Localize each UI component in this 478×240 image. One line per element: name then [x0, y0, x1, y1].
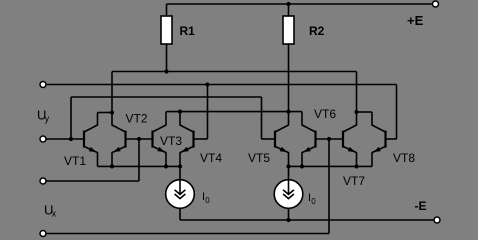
node R2 top rail [286, 2, 290, 6]
label R1 [180, 24, 196, 38]
label -E [415, 199, 427, 213]
label VT6 [314, 107, 336, 121]
node VT2 emitter [110, 164, 114, 168]
node VT6 VT7 bases [327, 137, 331, 141]
wire VT6 VT7 base tie [316, 138, 344, 140]
label R2 [309, 24, 325, 38]
label I01 [202, 191, 210, 205]
wire right emitter bus [287, 165, 373, 167]
wire Ux lower input [46, 139, 329, 234]
node VT1 base branch [69, 137, 73, 141]
svg-text:VT2: VT2 [126, 112, 148, 126]
wire +E top rail [167, 3, 436, 5]
svg-text:R2: R2 [309, 24, 325, 38]
transistor VT1 [84, 113, 98, 167]
wire collector bus (R2 net VT3 VT4 VT5 VT6) [166, 111, 302, 113]
label VT2 [126, 112, 148, 126]
resistor R2 [283, 4, 294, 112]
wire VT1 collector elbow [98, 112, 113, 114]
node R2 to collector bus [286, 110, 290, 114]
terminal Uy lower [40, 136, 46, 142]
current source I02 [274, 166, 303, 220]
node VT7 emitter [354, 164, 358, 168]
wire VT5 base [262, 138, 276, 140]
wire Ux upper input [46, 139, 139, 181]
node VT2 VT3 bases [137, 137, 141, 141]
wire VT2 VT3 base tie [126, 138, 153, 140]
label +E [407, 13, 424, 28]
svg-text:VT8: VT8 [393, 151, 415, 165]
svg-text:0: 0 [205, 196, 210, 205]
transistor VT6 [302, 125, 316, 166]
terminal +E [433, 1, 439, 7]
transistor VT7 [343, 112, 357, 166]
svg-text:VT6: VT6 [314, 107, 336, 121]
resistor R1 [161, 4, 172, 72]
label Uy [37, 108, 50, 124]
svg-text:0: 0 [311, 197, 316, 206]
label Ux [44, 203, 57, 219]
node R1 to line A [164, 69, 168, 73]
wire line C (VT1-VT5 base tie) [71, 97, 262, 139]
wire line A right drop [356, 72, 358, 113]
terminal Ux upper [40, 178, 46, 184]
node VT1 VT2 collectors [110, 110, 114, 114]
terminal -E [434, 217, 440, 223]
svg-text:y: y [45, 114, 50, 124]
wire left emitter bus [98, 165, 182, 167]
label VT8 [393, 151, 415, 165]
svg-text:-E: -E [415, 199, 427, 213]
transistor VT2 [112, 113, 126, 167]
svg-text:R1: R1 [180, 24, 196, 38]
label VT3 [160, 134, 182, 148]
node VT3 emitter [164, 164, 168, 168]
transistor VT3 [153, 112, 167, 167]
label VT7 [343, 174, 365, 188]
current source I01 [166, 166, 195, 220]
node VT7 VT8 collectors [354, 110, 358, 114]
transistor VT4 [180, 112, 194, 167]
wire line A (R1 collector net) [112, 71, 357, 73]
wire VT8 base drop [386, 85, 397, 140]
wire VT4 base drop [194, 85, 208, 140]
terminal Uy upper [40, 82, 46, 88]
label VT4 [200, 151, 222, 165]
label I02 [308, 192, 316, 206]
node VT6 emitter [300, 164, 304, 168]
node I02 to -E rail [286, 218, 290, 222]
wire line A left drop [111, 72, 113, 113]
wire VT8 collector elbow [357, 111, 373, 113]
svg-text:VT7: VT7 [343, 174, 365, 188]
label VT5 [248, 151, 270, 165]
node VT4 collector [178, 110, 182, 114]
node VT5 emitter I02 tap [286, 164, 290, 168]
svg-text:VT3: VT3 [160, 134, 182, 148]
label VT1 [64, 154, 86, 168]
svg-text:VT4: VT4 [200, 151, 222, 165]
transistor VT5 [275, 112, 289, 167]
wire -E rail [180, 219, 434, 221]
svg-text:VT5: VT5 [248, 151, 270, 165]
node VT4 emitter I01 tap [178, 164, 182, 168]
wire line B (Uy upper input) [46, 84, 397, 86]
wire collector bus right drop [301, 112, 303, 125]
wire VT1 base [46, 138, 84, 140]
svg-text:VT1: VT1 [64, 154, 86, 168]
terminal Ux lower [40, 231, 46, 237]
transistor VT8 [372, 112, 386, 166]
node line B to VT4 base [205, 82, 209, 86]
svg-text:+E: +E [407, 13, 424, 28]
svg-text:x: x [52, 209, 57, 219]
